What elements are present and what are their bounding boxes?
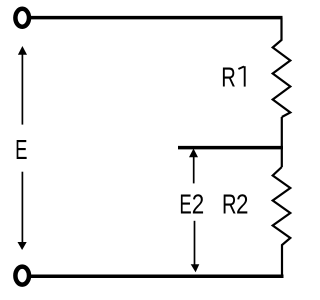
wire bottom — [31, 274, 284, 278]
wire right middle (R1 bottom to R2 top through tap) — [281, 117, 283, 167]
svg-text:2: 2 — [192, 189, 204, 220]
svg-text:2: 2 — [236, 189, 248, 220]
svg-text:R: R — [221, 62, 236, 93]
resistor R2 — [273, 167, 291, 276]
terminal top-left — [15, 9, 29, 27]
label R1 — [221, 62, 244, 93]
wire tap (middle) — [178, 146, 283, 150]
svg-text:E: E — [15, 135, 27, 166]
label R2 — [222, 189, 248, 220]
svg-text:E: E — [179, 190, 191, 221]
arrow E2 (double-headed, label gap) — [189, 149, 199, 273]
resistor R1 — [273, 18, 291, 117]
wire top — [31, 16, 283, 20]
terminal bottom-left — [15, 267, 29, 285]
label E2 — [179, 189, 204, 220]
arrow E (double-headed, label gap) — [18, 46, 28, 250]
svg-text:R: R — [222, 189, 237, 220]
